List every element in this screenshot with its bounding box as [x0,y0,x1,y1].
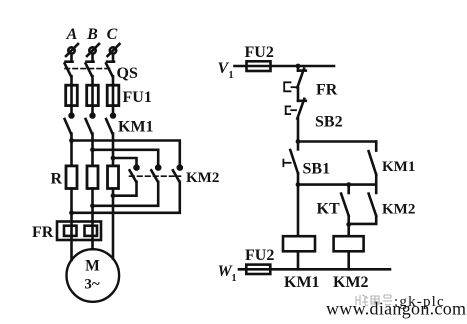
wire phase B KM1 to resistor [91,134,94,166]
fuse FU1 phase A [66,85,78,105]
svg-text:FR: FR [316,82,338,99]
junction dot A feed [69,138,74,143]
switch QS pole A [65,62,73,85]
junction dot A return [69,210,74,215]
svg-text:KM1: KM1 [118,119,154,136]
junction dot top rail [296,64,301,69]
pushbutton SB1 (NO start) [283,142,298,185]
terminal circle phase B [87,44,99,56]
bottom rail wire [239,268,390,271]
wire phase B resistor to FR [91,189,94,222]
junction dot KT bottom [346,222,351,227]
svg-text:A: A [66,26,78,43]
wire KM2 pole2 return to phase B [93,182,159,206]
junction dot C feed [111,156,116,161]
junction dot branch bottom mid [346,182,351,187]
resistor R phase B [87,166,98,189]
switch QS pole C [106,62,114,85]
contactor KM2 bypass pole 3 [173,166,182,182]
wire to KM2 coil [347,224,350,236]
switch QS pole B [86,62,94,85]
wire KM2 coil to rail [347,251,350,269]
svg-text:B: B [86,26,98,43]
fuse FU2 bottom [246,265,270,274]
KM2 linkage dashed [130,175,181,177]
wire feed B to KM2 pole2 [93,150,159,166]
svg-text:SB2: SB2 [315,114,343,131]
wire FR to motor A [70,240,73,260]
coil KM2 [334,236,364,251]
svg-text:FU1: FU1 [123,89,152,106]
wire phase A KM1 to resistor [70,134,73,166]
svg-text:C: C [107,26,118,43]
contactor KM1 main pole A [65,114,74,134]
thermal relay FR element [57,222,101,241]
fuse FU1 phase C [107,85,119,105]
wire A terminal to QS [70,54,73,62]
watermark weixin glyph 2 [371,296,379,304]
terminal circle phase A [66,44,78,56]
wire feed A to KM2 pole3 [72,141,180,167]
thermal contact FR (NC) [284,66,306,101]
wire fuse to KM1 B [91,106,94,115]
svg-text:M: M [85,258,100,275]
coil KM1 [283,236,315,251]
wire KM2 pole1 return to phase C [113,182,137,196]
svg-text:SB1: SB1 [303,161,331,178]
motor M [67,249,120,302]
svg-text:KT: KT [317,201,340,218]
junction dot C return [111,193,116,198]
contactor KM2 bypass pole 2 [151,166,160,182]
wire KM1 coil to rail [297,251,300,269]
wire to KM1 coil [297,185,300,237]
terminal circle phase C [108,44,120,56]
contactor KM2 bypass pole 1 [130,166,139,182]
pushbutton SB2 (NC stop) [286,99,306,142]
resistor R phase C [108,166,119,189]
contactor KM1 main pole C [106,114,115,134]
wire phase C KM1 to resistor [112,134,115,166]
wire phase C resistor to motor [112,189,115,259]
junction dot branch bottom left [296,182,301,187]
fuse FU2 top [247,61,271,71]
resistor R phase A [66,166,77,189]
svg-text:FU2: FU2 [245,247,274,264]
watermark weixin glyph 1 [356,295,368,305]
fuse FU1 phase B [87,85,99,105]
wire feed C to KM2 pole1 [113,158,137,166]
svg-text:FU2: FU2 [245,44,274,61]
junction dot B feed [90,147,95,152]
wire branch top [298,140,376,143]
wire fuse to KM1 C [112,106,115,115]
wire C terminal to QS [112,54,115,62]
wire FR to motor B [91,240,94,249]
junction dot B return [90,203,95,208]
wire phase A resistor to FR [70,189,73,222]
svg-text:FR: FR [32,224,54,241]
svg-text:www.diangon.com: www.diangon.com [326,299,466,319]
svg-text:KM2: KM2 [186,170,219,186]
svg-text:KM1: KM1 [284,274,320,291]
svg-text:KM2: KM2 [382,202,415,218]
contact KM2 (NO) [349,194,377,224]
QS linkage dashed [65,68,110,70]
svg-text:R: R [51,171,63,188]
svg-text:3~: 3~ [84,277,100,293]
svg-text:1: 1 [232,273,237,284]
svg-text:1: 1 [229,70,234,81]
svg-text:KM2: KM2 [333,274,369,291]
wire branch bottom [298,183,376,186]
top rail wire [235,65,335,68]
timer contact KT (NO) [341,185,349,225]
wire B terminal to QS [91,54,94,62]
wire KM2 pole3 return to phase A [72,182,180,213]
junction dot SB1 top [296,139,301,144]
contact KM1 (self hold NO) [369,142,377,193]
wire fuse to KM1 A [70,106,73,115]
contactor KM1 main pole B [86,114,95,134]
svg-text:KM1: KM1 [382,159,415,175]
svg-text:QS: QS [117,65,138,82]
watermark weixin glyph 3 [383,295,392,305]
